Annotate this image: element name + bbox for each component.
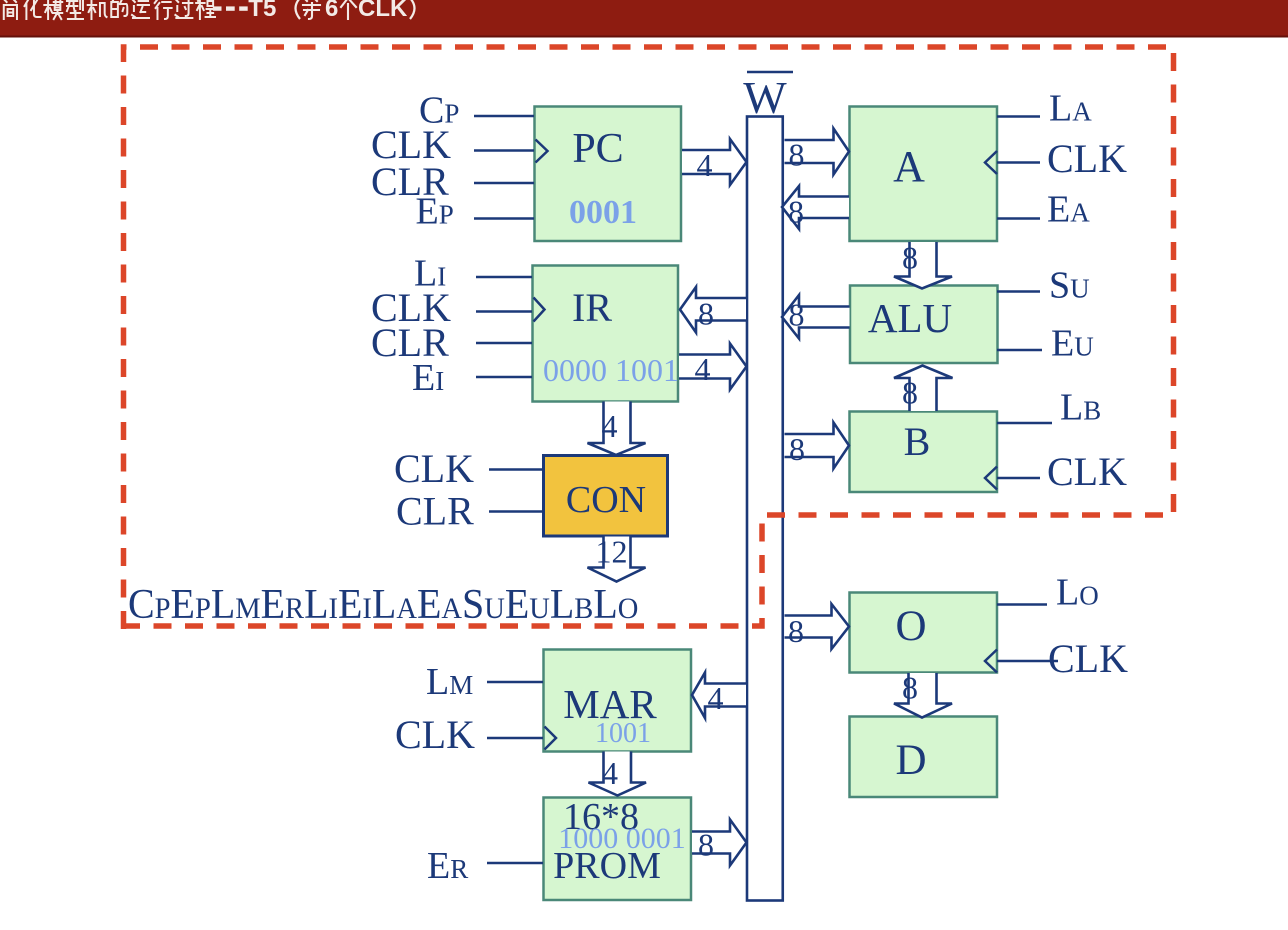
- wire Ei to IR: [476, 376, 532, 379]
- wire Li to IR: [476, 276, 532, 279]
- svg-text:CLK: CLK: [395, 712, 475, 757]
- svg-text:8: 8: [698, 827, 714, 863]
- svg-text:LO: LO: [1056, 572, 1099, 614]
- hanzi xing (type): [67, 0, 83, 19]
- wire A to Ea: [997, 217, 1040, 220]
- svg-text:12: 12: [596, 534, 628, 570]
- wire ALU to Eu: [997, 349, 1042, 352]
- svg-text:ALU: ALU: [868, 295, 952, 341]
- hanzi ji (machine): [88, 0, 107, 19]
- title bar: [0, 0, 1288, 37]
- title text (drawn hanzi): [4, 0, 356, 19]
- bus arrow W to MAR (4 bits): [692, 673, 746, 719]
- register O: [850, 593, 998, 673]
- svg-text:T5: T5: [248, 0, 276, 22]
- arrow O to D (8 bits): [894, 673, 952, 718]
- wire CLK to B: [997, 477, 1040, 480]
- node W label overline: [747, 71, 793, 74]
- arrow B to ALU (8 bits): [894, 366, 953, 412]
- svg-text:0001: 0001: [569, 194, 637, 231]
- hanzi hua: [25, 0, 41, 19]
- register MAR: [544, 650, 692, 752]
- clock input wedge O: [985, 650, 997, 673]
- svg-text:0000 1001: 0000 1001: [543, 352, 679, 388]
- bus arrow W to IR (8 bits): [680, 287, 746, 333]
- bus arrow IR to W (4 bits): [679, 344, 747, 390]
- clock input wedge B: [985, 467, 997, 490]
- svg-text:4: 4: [602, 408, 618, 444]
- wire Cp to PC: [474, 115, 534, 118]
- bus W (vertical bus rectangle): [747, 117, 783, 901]
- svg-text:PC: PC: [572, 126, 623, 172]
- svg-text:LB: LB: [1060, 387, 1101, 429]
- bus arrow W to A (8 bits): [785, 129, 850, 175]
- svg-text:6: 6: [325, 0, 338, 22]
- svg-text:8: 8: [902, 375, 918, 411]
- clock input wedge MAR: [545, 727, 557, 750]
- svg-text:CPEPLMERLIEILAEASUEULBLO: CPEPLMERLIEILAEASUEULBLO: [128, 580, 638, 627]
- control signal list CpEpLmErLiEiLaEaSuEuLbLo: [128, 580, 638, 627]
- arrow A to ALU (8 bits): [894, 242, 952, 289]
- clock input wedge PC: [536, 140, 548, 163]
- svg-text:4: 4: [695, 351, 711, 387]
- svg-text:A: A: [893, 142, 925, 191]
- svg-text:CLR: CLR: [371, 320, 449, 365]
- svg-text:LA: LA: [1049, 88, 1092, 130]
- svg-text:4: 4: [697, 147, 713, 183]
- svg-text:EU: EU: [1051, 323, 1094, 365]
- hanzi xing (go): [155, 0, 172, 19]
- svg-text:ER: ER: [427, 845, 468, 887]
- wire CLR to CON: [489, 510, 543, 513]
- svg-text:8: 8: [789, 431, 805, 467]
- wire Ep to PC: [474, 217, 534, 220]
- register PC: [535, 107, 682, 242]
- hanzi guo: [175, 0, 192, 18]
- block D: [850, 717, 998, 798]
- hanzi yun: [132, 0, 149, 18]
- arrow MAR to PROM (4 bits): [589, 752, 647, 796]
- fullwidth parens: [296, 0, 301, 19]
- svg-text:8: 8: [902, 240, 918, 276]
- clock input wedge IR: [534, 298, 545, 322]
- svg-text:W: W: [743, 72, 787, 123]
- svg-text:LM: LM: [426, 661, 473, 703]
- svg-text:CLK: CLK: [358, 0, 408, 22]
- wire Su to ALU: [997, 290, 1040, 293]
- svg-text:1001: 1001: [595, 718, 651, 749]
- controller CON: [544, 456, 668, 537]
- bus arrow W to O (8 bits): [785, 604, 850, 649]
- svg-text:D: D: [895, 737, 926, 784]
- wire Er to PROM: [487, 862, 543, 865]
- hanzi de: [111, 0, 127, 17]
- svg-text:8: 8: [698, 296, 714, 332]
- clock input wedge A: [985, 151, 997, 174]
- hanzi ge: [341, 0, 356, 19]
- bus arrow W to B (8 bits): [785, 423, 850, 469]
- wire CLR to PC: [474, 182, 534, 185]
- arrow CON to control signals (12 bits): [588, 537, 646, 582]
- svg-text:CLR: CLR: [396, 489, 474, 534]
- svg-text:4: 4: [602, 755, 618, 791]
- svg-text:8: 8: [902, 670, 918, 706]
- svg-text:PROM: PROM: [553, 845, 661, 887]
- wire O to Lo: [997, 603, 1047, 606]
- title text latin: [213, 6, 248, 10]
- bus arrow PC to W (4 bits): [682, 139, 747, 185]
- bus arrow PROM to W (8 bits): [692, 820, 747, 866]
- svg-text:O: O: [895, 603, 926, 650]
- wire CLK to O: [997, 660, 1058, 663]
- wire CLK to MAR: [487, 737, 543, 740]
- wire CLR to IR: [476, 342, 532, 345]
- hanzi di (ordinal): [303, 0, 320, 19]
- svg-text:SU: SU: [1049, 265, 1090, 307]
- svg-text:IR: IR: [572, 285, 612, 330]
- memory PROM 16*8: [544, 798, 692, 901]
- svg-text:4: 4: [708, 680, 724, 716]
- svg-text:8: 8: [788, 613, 804, 649]
- wire CLK to PC: [474, 149, 534, 152]
- bus arrow ALU to W (8 bits): [782, 295, 850, 339]
- wire CLK to CON: [489, 468, 543, 471]
- svg-text:8: 8: [789, 137, 805, 173]
- register IR: [533, 266, 679, 402]
- dashed red boundary: [124, 47, 1174, 629]
- wire CLK to A: [997, 161, 1040, 164]
- wire CLK to IR: [476, 310, 532, 313]
- bus arrow A to W (8 bits): [782, 186, 849, 229]
- svg-text:8: 8: [789, 297, 805, 333]
- svg-text:CLK: CLK: [1048, 636, 1128, 681]
- block ALU: [850, 286, 998, 364]
- register A: [850, 107, 998, 242]
- wire Lm to MAR: [487, 681, 543, 684]
- svg-text:B: B: [904, 419, 931, 464]
- arrow IR to CON (4 bits): [588, 402, 646, 456]
- hanzi cheng: [196, 0, 215, 19]
- svg-text:CLK: CLK: [1047, 136, 1127, 181]
- svg-text:8: 8: [788, 194, 804, 230]
- wire A to La: [997, 115, 1040, 118]
- hanzi mo: [44, 0, 62, 19]
- svg-text:CLK: CLK: [1047, 449, 1127, 494]
- hanzi jian (simplified drawing): [4, 0, 17, 19]
- wire B to Lb: [997, 422, 1052, 425]
- register B: [850, 412, 998, 493]
- svg-text:CON: CON: [566, 479, 646, 521]
- svg-text:EA: EA: [1047, 189, 1090, 231]
- svg-text:CLK: CLK: [394, 446, 474, 491]
